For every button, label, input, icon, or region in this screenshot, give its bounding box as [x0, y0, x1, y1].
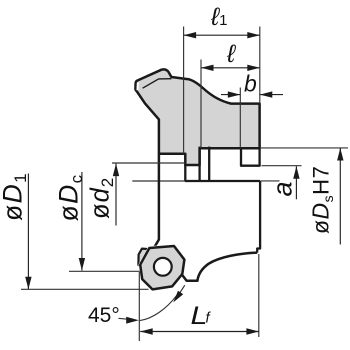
bottom insert (octagon) [140, 246, 184, 289]
dimension line b (outside arrows) [221, 94, 240, 96]
screw hole left wall [198, 147, 200, 181]
screw hole right wall [208, 147, 210, 181]
front face lower part [155, 154, 159, 247]
svg-text:a: a [268, 181, 298, 196]
extension line oD1 [21, 288, 149, 290]
45-degree leader arrowhead [126, 317, 139, 324]
extension line b left [239, 88, 241, 149]
extension line l1 left [183, 27, 185, 154]
dimension line l [201, 67, 260, 69]
extension line oDs (bore) [261, 147, 348, 149]
extension line Lf left [138, 272, 140, 341]
dimension line Lf [140, 331, 259, 333]
45-degree leader line [119, 317, 128, 320]
back-face recess (white rectangle) [241, 148, 260, 165]
45-degree edge line [176, 285, 185, 299]
svg-text:b: b [244, 71, 257, 97]
svg-text:ød2: ød2 [87, 177, 118, 219]
cutter body section (gray) [135, 69, 259, 165]
dimension line oDc [81, 172, 83, 271]
dimension line oDs H7 [339, 148, 341, 245]
insert hole [154, 258, 172, 276]
top insert clearance sliver [136, 82, 139, 90]
extension line od2 [112, 162, 185, 164]
45-degree arc arrowhead [173, 291, 183, 303]
dimension line oD1 [27, 174, 29, 290]
axis step line (thin part) [132, 180, 185, 182]
extension line Lf right [258, 254, 260, 337]
wedge behind bottom insert [138, 249, 151, 269]
dimension line od2 [115, 164, 117, 226]
extension line a label shelf [261, 180, 280, 182]
svg-text:øDc: øDc [54, 173, 87, 221]
extension line back face top [259, 27, 261, 104]
svg-text:øD1: øD1 [0, 172, 30, 221]
svg-text:ℓ: ℓ [226, 40, 236, 68]
extension line l left [200, 60, 202, 149]
extension line oDc [69, 270, 140, 272]
45-degree arc [140, 295, 177, 320]
svg-text:ℓ1: ℓ1 [210, 3, 227, 31]
svg-text:45°: 45° [88, 304, 120, 327]
extension line a upper (recess bottom) [262, 165, 302, 167]
svg-text:f: f [206, 311, 212, 327]
dimension line l1 [184, 34, 260, 36]
lower back face [257, 181, 260, 253]
svg-text:øDsH7: øDsH7 [308, 166, 337, 234]
bore wall left (hub pilot) [184, 165, 186, 181]
lower ogee curve (outside view) [182, 253, 257, 281]
dimension line a [295, 166, 297, 199]
top insert seat joint line [143, 79, 172, 89]
axis step line (thick part) [185, 180, 260, 182]
